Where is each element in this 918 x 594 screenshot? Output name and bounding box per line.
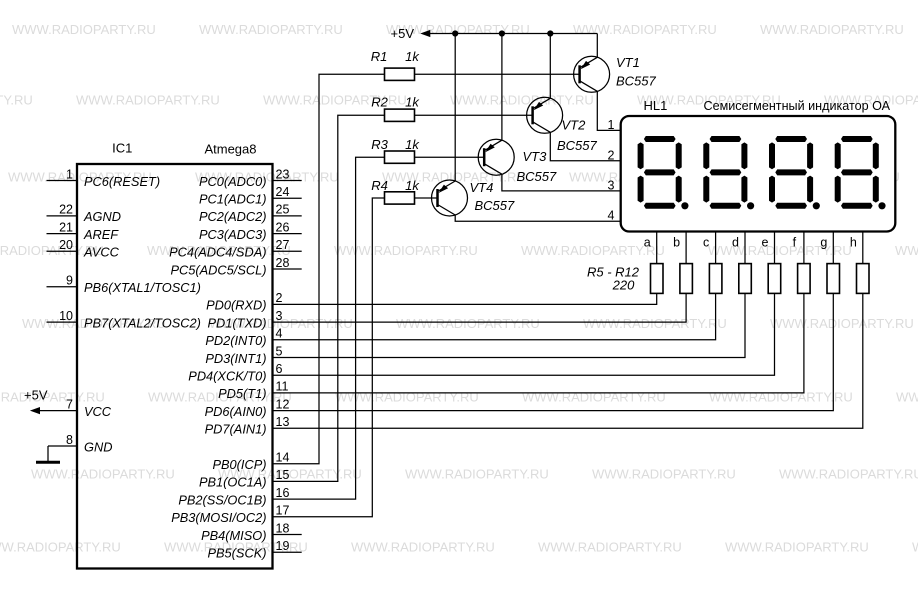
resistor R5 (segment a, 220) [651,264,664,294]
label segment h [850,236,857,250]
IC1 pin 13 PD7(AIN1) [205,415,290,437]
value 1k (R4) [405,178,420,193]
svg-text:2: 2 [608,148,615,162]
svg-text:PC2(ADC2): PC2(ADC2) [199,209,267,224]
wire net base4 (IC pin 17 up to R4) [273,198,385,517]
svg-text:WWW.RADIOPARTY.RU: WWW.RADIOPARTY.RU [896,390,918,405]
wire net c (IC pin 4 to R resistor to HL1 segment c) [273,232,716,340]
svg-text:VT3: VT3 [523,149,548,164]
label R1 [371,49,388,64]
label segment c [703,236,709,250]
svg-text:PD3(INT1): PD3(INT1) [205,351,266,366]
svg-text:PB2(SS/OC1B): PB2(SS/OC1B) [178,492,266,507]
IC U1 Atmega8 body [77,164,273,569]
transistor VT2 (BC557 PNP) [527,97,563,133]
wire net base2 (IC pin 15 up to R2) [273,115,385,481]
svg-text:23: 23 [276,167,290,181]
wire net base1 (IC pin 14 up to R1) [273,74,385,463]
wire net d (IC pin 5 to R resistor to HL1 segment d) [273,232,746,358]
svg-text:+5V: +5V [24,388,48,403]
value 1k (R1) [405,49,420,64]
label segment d [732,236,739,250]
svg-text:BC557: BC557 [616,74,657,89]
svg-text:h: h [850,236,857,250]
IC1 pin 12 PD6(AIN0) [205,397,290,419]
svg-text:e: e [762,236,769,250]
svg-text:3: 3 [276,309,283,323]
svg-text:12: 12 [276,397,290,411]
svg-text:WWW.RADIOPARTY.RU: WWW.RADIOPARTY.RU [583,316,727,331]
svg-text:WWW.RADIOPARTY.RU: WWW.RADIOPARTY.RU [522,390,666,405]
svg-text:17: 17 [276,504,290,518]
IC1 pin 15 PB1(OC1A) [199,468,290,490]
svg-text:3: 3 [608,178,615,192]
HL1 digit 3 (all segments + dp) [769,136,820,209]
svg-text:PD5(T1): PD5(T1) [218,386,266,401]
label HL1 [644,98,668,113]
svg-text:1k: 1k [405,49,420,64]
svg-text:R4: R4 [371,178,388,193]
svg-text:IC1: IC1 [112,141,132,156]
svg-text:8: 8 [66,433,73,447]
transistor VT1 (BC557 PNP) [574,56,610,92]
svg-text:WWW.RADIOPARTY.RU: WWW.RADIOPARTY.RU [199,22,343,37]
IC1 pin 3 PD1(TXD) [207,309,282,331]
svg-text:d: d [732,236,739,250]
svg-text:WWW.RADIOPARTY.RU: WWW.RADIOPARTY.RU [396,316,540,331]
IC1 pin 7 VCC [66,397,112,419]
svg-text:18: 18 [276,521,290,535]
svg-text:27: 27 [276,238,290,252]
svg-text:GND: GND [84,439,112,454]
power +5V (top) [391,26,431,41]
wire VT1 collector to HL1 pin 1 [597,91,620,130]
svg-text:PC0(ADC0): PC0(ADC0) [199,174,267,189]
svg-text:1: 1 [66,167,73,181]
svg-text:R2: R2 [371,95,388,110]
IC1 pin 17 PB3(MOSI/OC2) [171,504,289,526]
resistor R6 (segment b, 220) [680,264,693,294]
IC1 pin 9 PB6(XTAL1/TOSC1) [47,274,201,296]
svg-text:PC5(ADC5/SCL): PC5(ADC5/SCL) [170,262,266,277]
svg-text:VT2: VT2 [562,117,587,132]
IC1 pin 27 PC4(ADC4/SDA) [169,238,302,260]
svg-text:PC3(ADC3): PC3(ADC3) [199,227,267,242]
svg-text:WWW.RADIOPARTY.RU: WWW.RADIOPARTY.RU [760,22,904,37]
label VT1 [616,55,640,70]
svg-text:10: 10 [59,309,73,323]
label VT4 [470,180,494,195]
svg-text:WWW.RADIOPARTY.RU: WWW.RADIOPARTY.RU [12,22,156,37]
resistor R10 (segment f, 220) [798,264,811,294]
IC1 pin 26 PC3(ADC3) [199,220,302,242]
wire net e (IC pin 6 to R resistor to HL1 segment e) [273,232,775,376]
wire VT4 collector to HL1 pin 4 [455,215,621,221]
svg-text:WWW.RADIOPARTY.RU: WWW.RADIOPARTY.RU [335,390,479,405]
svg-text:220: 220 [612,278,635,293]
svg-text:WWW.RADIOPARTY.RU: WWW.RADIOPARTY.RU [31,467,175,482]
svg-text:PB0(ICP): PB0(ICP) [212,457,266,472]
svg-text:f: f [793,236,797,250]
label R2 [371,95,388,110]
svg-text:WWW.RADIOPARTY.RU: WWW.RADIOPARTY.RU [895,243,918,258]
svg-text:PB7(XTAL2/TOSC2): PB7(XTAL2/TOSC2) [84,315,201,330]
svg-text:9: 9 [66,274,73,288]
label R4 [371,178,388,193]
svg-text:PC6(RESET): PC6(RESET) [84,174,160,189]
HL1 pin 3 number [608,178,615,192]
svg-text:28: 28 [276,256,290,270]
svg-text:13: 13 [276,415,290,429]
svg-text:HL1: HL1 [644,98,668,113]
svg-text:22: 22 [59,203,73,217]
svg-text:+5V: +5V [391,26,415,41]
resistor R12 (segment h, 220) [857,264,870,294]
svg-text:11: 11 [276,380,289,394]
svg-text:WWW.RADIOPARTY.RU: WWW.RADIOPARTY.RU [538,540,682,555]
svg-text:1k: 1k [405,137,420,152]
svg-text:b: b [673,236,680,250]
wire R2 to VT2 base [415,114,533,116]
svg-text:WWW.RADIOPARTY.RU: WWW.RADIOPARTY.RU [709,390,853,405]
svg-text:25: 25 [276,203,290,217]
svg-text:PD0(RXD): PD0(RXD) [206,298,266,313]
wire net f (IC pin 11 to R resistor to HL1 segment f) [273,232,804,393]
svg-text:VCC: VCC [84,404,112,419]
svg-text:PD2(INT0): PD2(INT0) [205,333,266,348]
resistor R3 (1k) [385,151,415,163]
label segment e [762,236,769,250]
power +5V (VCC pin 7) [24,388,77,415]
label R3 [371,137,388,152]
svg-text:WWW.RADIOPARTY.RU: WWW.RADIOPARTY.RU [405,467,549,482]
svg-text:1: 1 [608,118,615,132]
label Atmega8 [204,142,256,157]
svg-text:15: 15 [276,468,290,482]
svg-text:PD6(AIN0): PD6(AIN0) [205,404,267,419]
svg-text:5: 5 [276,344,283,358]
label R5 - R12 [587,265,640,280]
svg-text:AVCC: AVCC [83,245,120,260]
HL1 pin 1 number [608,118,615,132]
wire VT3 collector to HL1 pin 3 [502,174,621,191]
IC1 pin 10 PB7(XTAL2/TOSC2) [47,309,201,331]
wire VT3 emitter to +5V rail [501,34,503,141]
transistor VT3 (BC557 PNP) [478,139,514,175]
svg-text:PB4(MISO): PB4(MISO) [201,528,266,543]
svg-text:1k: 1k [405,95,420,110]
wire net h (IC pin 13 to R resistor to HL1 segment h) [273,232,863,429]
svg-text:PD4(XCK/T0): PD4(XCK/T0) [188,369,266,384]
resistor R8 (segment d, 220) [739,264,752,294]
svg-text:24: 24 [276,185,290,199]
svg-text:Atmega8: Atmega8 [204,142,256,157]
wire net g (IC pin 12 to R resistor to HL1 segment g) [273,232,834,411]
svg-text:14: 14 [276,451,290,465]
junction on +5V rail (VT4 emitter) [452,30,458,36]
junction on +5V rail (VT2 emitter) [547,30,553,36]
svg-text:WWW.RADIOPARTY.RU: WWW.RADIOPARTY.RU [779,467,918,482]
svg-text:g: g [820,236,827,250]
value 220 [612,278,635,293]
IC1 pin 22 AGND [47,203,121,225]
svg-text:BC557: BC557 [517,169,558,184]
svg-text:PB3(MOSI/OC2): PB3(MOSI/OC2) [171,510,266,525]
wire R4 to VT4 base [415,197,438,199]
IC1 pin 8 GND [48,433,112,455]
value BC557 (VT3) [517,169,558,184]
svg-text:WWW.RADIOPARTY.RU: WWW.RADIOPARTY.RU [708,243,852,258]
svg-text:2: 2 [276,291,283,305]
HL1 digit 4 (all segments + dp) [835,136,886,209]
svg-text:WWW.RADIOPARTY.RU: WWW.RADIOPARTY.RU [0,93,33,108]
svg-text:19: 19 [276,539,290,553]
svg-text:R3: R3 [371,137,388,152]
svg-text:WWW.RADIOPARTY.RU: WWW.RADIOPARTY.RU [76,93,220,108]
svg-text:WWW.RADIOPARTY.RU: WWW.RADIOPARTY.RU [770,316,914,331]
svg-text:AREF: AREF [83,227,119,242]
value BC557 (VT1) [616,74,657,89]
svg-text:R1: R1 [371,49,388,64]
svg-text:BC557: BC557 [557,138,598,153]
label segment a [644,236,651,250]
svg-text:1k: 1k [405,178,420,193]
IC1 pin 5 PD3(INT1) [205,344,282,366]
wire net a (IC pin 2 to R resistor to HL1 segment a) [273,232,657,305]
wire VT4 emitter to +5V rail [454,34,456,182]
IC1 pin 2 PD0(RXD) [206,291,282,313]
display HL1 body [621,116,896,232]
IC1 pin 16 PB2(SS/OC1B) [178,486,289,508]
svg-text:7: 7 [66,397,73,411]
transistor VT4 (BC557 PNP) [432,180,468,216]
wire R3 to VT3 base [415,156,485,158]
IC1 pin 21 AREF [47,220,120,242]
svg-text:PB1(OC1A): PB1(OC1A) [199,475,267,490]
wire net base3 (IC pin 16 up to R3) [273,157,385,499]
svg-text:WWW.RADIOPARTY.RU: WWW.RADIOPARTY.RU [351,540,495,555]
svg-text:4: 4 [608,209,615,223]
svg-text:WWW.RADIOPARTY.RU: WWW.RADIOPARTY.RU [450,93,594,108]
HL1 pin 4 number [608,209,615,223]
value 1k (R3) [405,137,420,152]
svg-text:c: c [703,236,709,250]
value BC557 (VT2) [557,138,598,153]
svg-text:VT1: VT1 [616,55,640,70]
svg-text:WWW.RADIOPARTY.RU: WWW.RADIOPARTY.RU [725,540,869,555]
svg-text:4: 4 [276,327,283,341]
resistor R2 (1k) [385,109,415,121]
label IC1 [112,141,132,156]
svg-text:AGND: AGND [83,209,121,224]
junction on +5V rail (VT3 emitter) [499,30,505,36]
label Семисегментный индикатор ОА [704,99,891,113]
IC1 pin 20 AVCC [47,238,120,260]
IC1 pin 18 PB4(MISO) [201,521,302,543]
HL1 digit 1 (all segments + dp) [638,136,689,209]
IC1 pin 6 PD4(XCK/T0) [188,362,282,384]
svg-text:PC4(ADC4/SDA): PC4(ADC4/SDA) [169,245,266,260]
svg-text:PB5(SCK): PB5(SCK) [207,546,266,561]
IC1 pin 4 PD2(INT0) [205,327,282,349]
IC1 pin 19 PB5(SCK) [207,539,301,561]
IC1 pin 23 PC0(ADC0) [199,167,302,189]
svg-text:21: 21 [59,220,73,234]
IC1 pin 25 PC2(ADC2) [199,203,302,225]
svg-text:WWW.RADIOPARTY.RU: WWW.RADIOPARTY.RU [0,540,121,555]
label segment b [673,236,680,250]
wire VT2 collector to HL1 pin 2 [550,132,620,161]
HL1 digit 2 (all segments + dp) [703,136,754,209]
wire VT2 emitter to +5V rail [549,34,551,99]
svg-text:Семисегментный индикатор ОА: Семисегментный индикатор ОА [704,99,891,113]
svg-text:PC1(ADC1): PC1(ADC1) [199,192,267,207]
IC1 pin 1 PC6(RESET) [47,167,161,189]
IC1 pin 14 PB0(ICP) [212,451,289,473]
svg-text:VT4: VT4 [470,180,494,195]
svg-text:PD7(AIN1): PD7(AIN1) [205,422,267,437]
svg-text:20: 20 [59,238,73,252]
value BC557 (VT4) [475,198,516,213]
wire +5V rail [429,33,597,35]
resistor R1 (1k) [385,68,415,80]
svg-text:WWW.RADIOPARTY.RU: WWW.RADIOPARTY.RU [592,467,736,482]
label segment g [820,236,827,250]
IC1 pin 28 PC5(ADC5/SCL) [170,256,301,278]
svg-text:WWW.RADIOPARTY.RU: WWW.RADIOPARTY.RU [573,22,717,37]
ground (GND pin 8) [36,446,60,462]
label VT2 [562,117,587,132]
resistor R4 (1k) [385,192,415,204]
svg-text:BC557: BC557 [475,198,516,213]
label VT3 [523,149,548,164]
svg-text:WWW.RADIOPARTY.RU: WWW.RADIOPARTY.RU [912,540,918,555]
svg-text:26: 26 [276,220,290,234]
IC1 pin 24 PC1(ADC1) [199,185,302,207]
svg-text:16: 16 [276,486,290,500]
svg-text:PB6(XTAL1/TOSC1): PB6(XTAL1/TOSC1) [84,280,201,295]
wire R1 to VT1 base [415,73,580,75]
svg-text:6: 6 [276,362,283,376]
svg-text:PD1(TXD): PD1(TXD) [207,315,266,330]
svg-text:a: a [644,236,651,250]
label segment f [793,236,797,250]
svg-text:WWW.RADIOPARTY.RU: WWW.RADIOPARTY.RU [0,390,105,405]
resistor R9 (segment e, 220) [768,264,781,294]
HL1 pin 2 number [608,148,615,162]
resistor R11 (segment g, 220) [827,264,840,294]
value 1k (R2) [405,95,420,110]
wire net b (IC pin 3 to R resistor to HL1 segment b) [273,232,687,323]
resistor R7 (segment c, 220) [709,264,722,294]
IC1 pin 11 PD5(T1) [218,380,288,402]
wire VT1 emitter to +5V rail [596,34,598,58]
